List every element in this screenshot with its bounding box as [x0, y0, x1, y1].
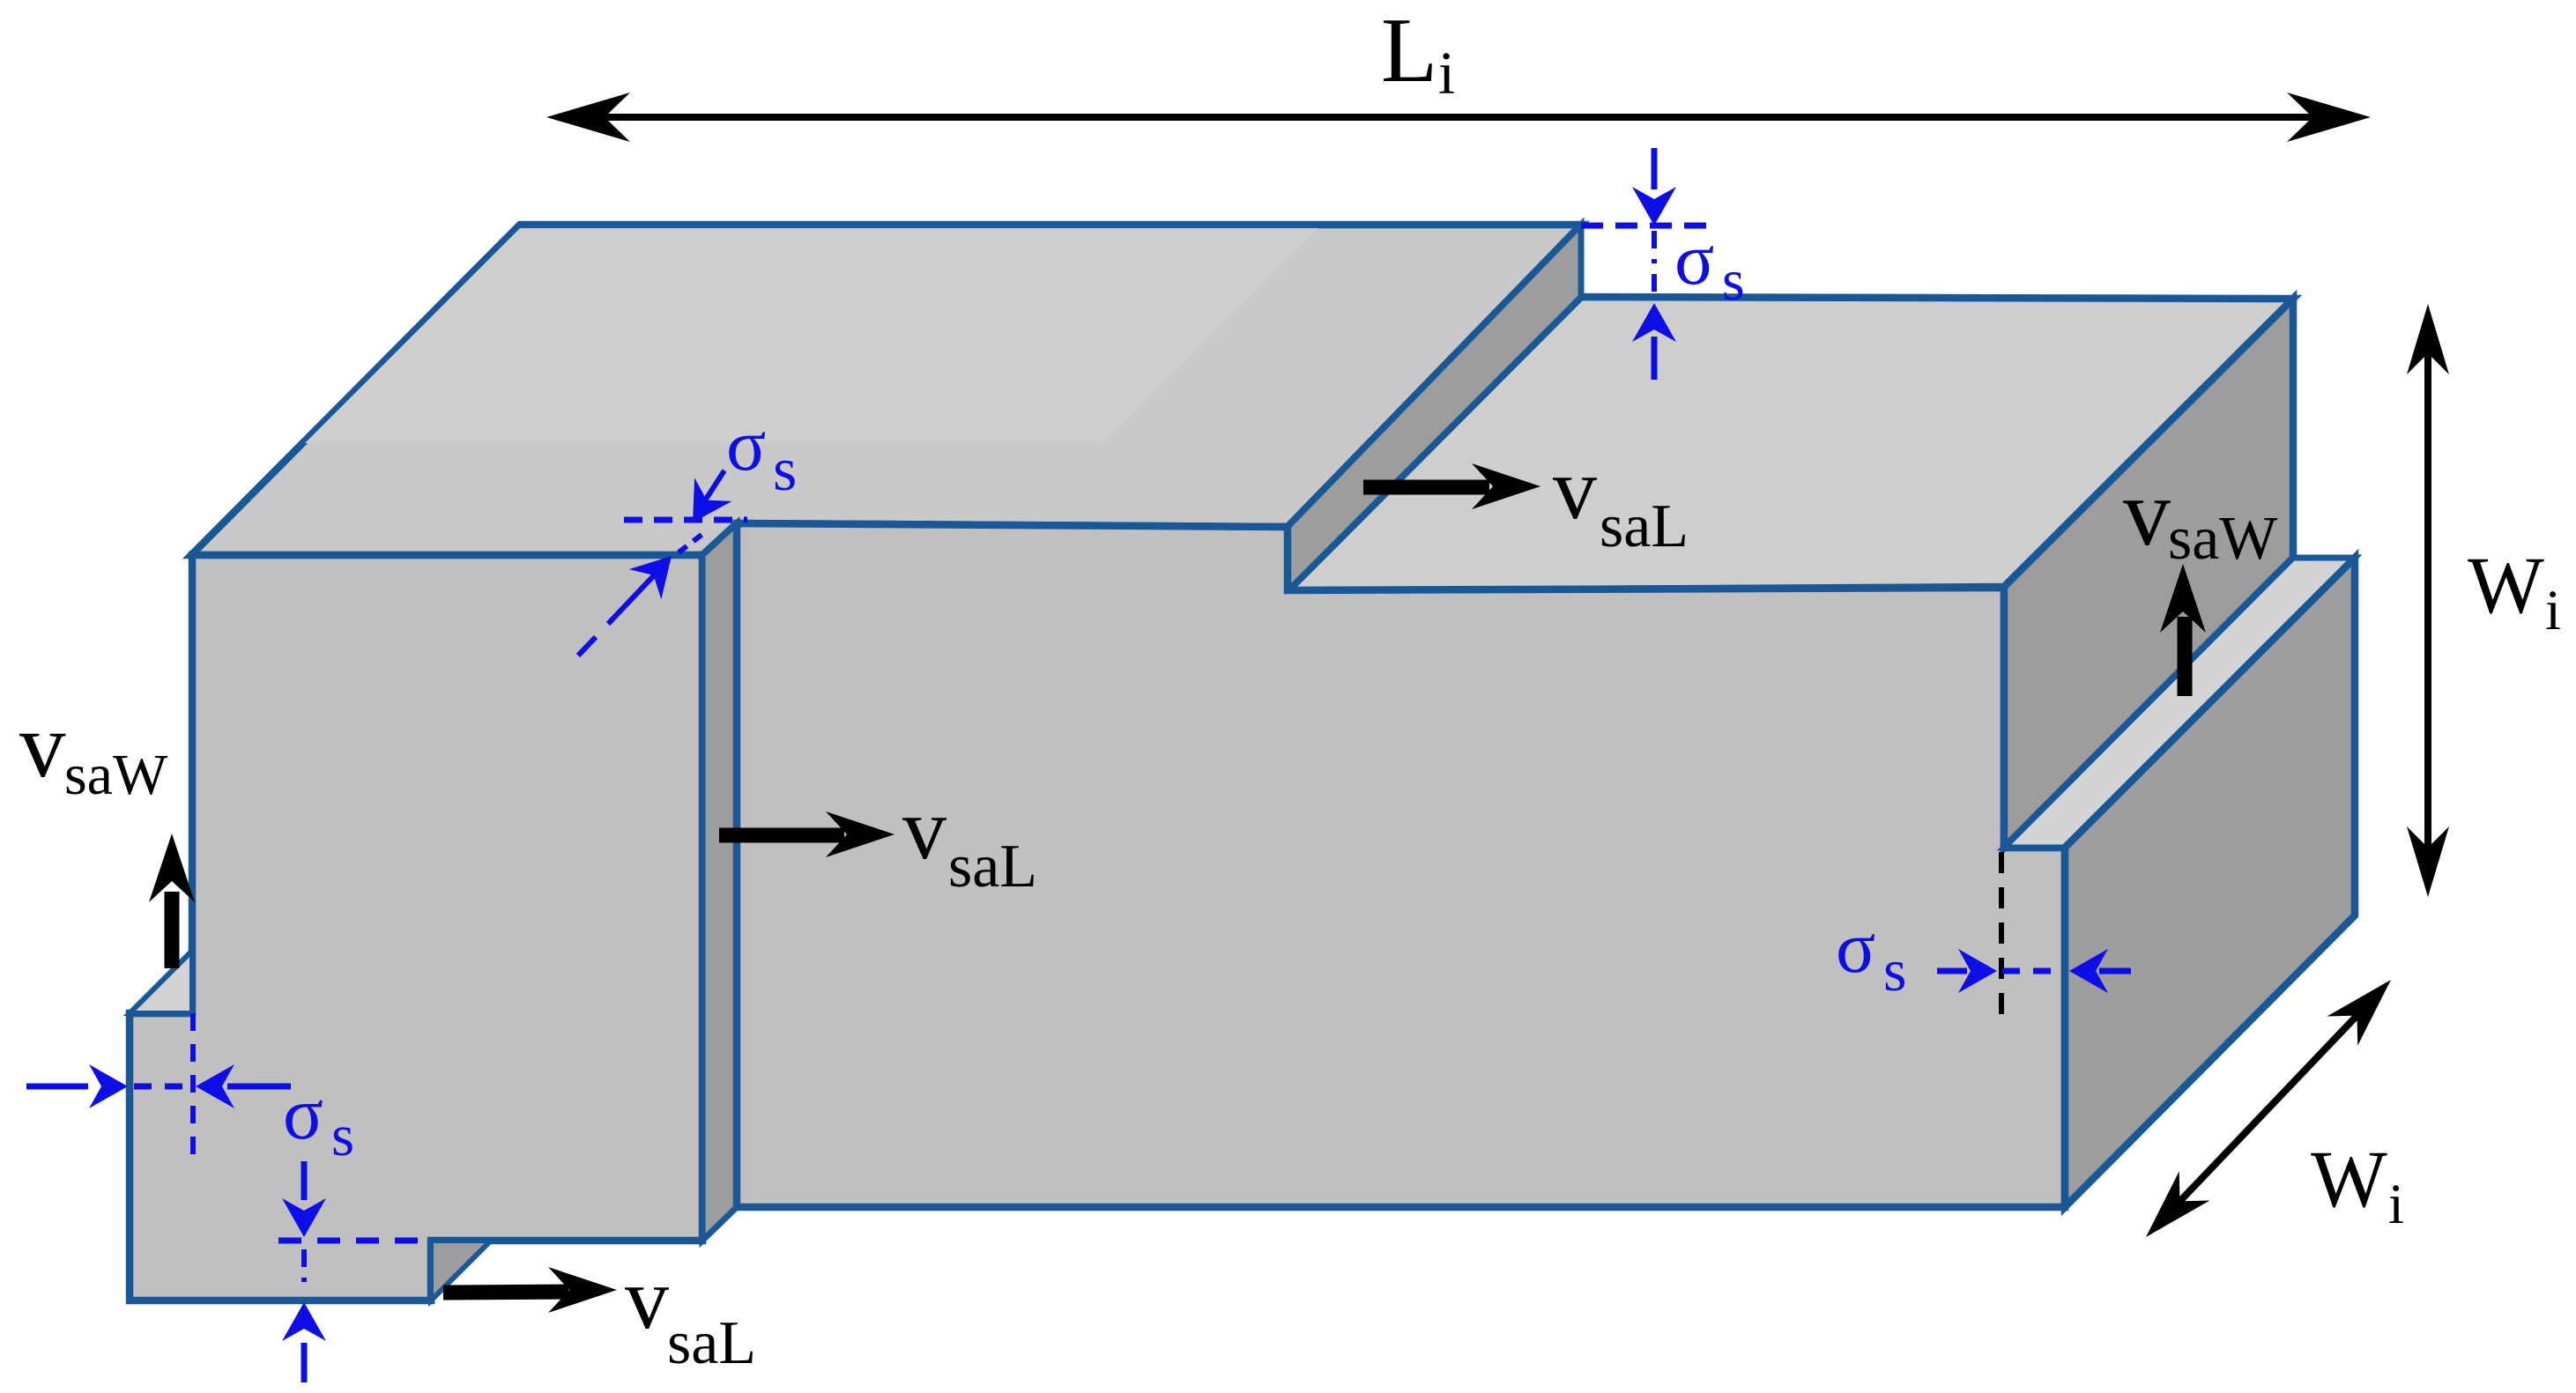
svg-text:saL: saL [667, 1309, 756, 1377]
v_saL arrow 1 (on lower terrace) [1363, 480, 1489, 495]
bottom-face layer right-end sliver (dark triangle) [431, 1241, 491, 1300]
svg-text:σ: σ [283, 1072, 323, 1155]
front face P1 (left section with bottom-left growth layers) [130, 555, 702, 1300]
sigma_s marker 2 (top-right step height) [1581, 223, 1714, 229]
svg-text:i: i [2388, 1173, 2404, 1236]
riser strip R2 (depth step between left and middle front faces) [702, 523, 737, 1241]
riser face R1 (step between terraces, sigma_s high) [1288, 225, 1581, 591]
svg-text:s: s [1883, 937, 1906, 1004]
svg-text:saL: saL [948, 833, 1037, 900]
svg-text:v: v [902, 780, 947, 878]
v_saL arrow 3 (bottom layer) [443, 1292, 568, 1293]
svg-text:W: W [2468, 540, 2544, 630]
v_saL arrow 2 (middle front face) [719, 828, 844, 843]
svg-text:σ: σ [1674, 219, 1714, 300]
svg-text:v: v [19, 693, 66, 797]
L_i dimension arrow (top) [582, 114, 2335, 121]
svg-text:saL: saL [1600, 493, 1689, 560]
hidden bottom edge (dashed) [278, 1238, 431, 1244]
top face T2 (lower-right terrace) [1288, 297, 2293, 591]
W_i dimension arrow (bottom-right, diagonal) [2160, 995, 2377, 1222]
svg-text:σ: σ [726, 404, 766, 486]
svg-text:i: i [1438, 40, 1455, 107]
svg-text:s: s [1722, 248, 1745, 313]
svg-text:s: s [773, 436, 797, 504]
right-end layer top strip (light) [2004, 558, 2355, 848]
svg-text:W: W [2311, 1134, 2387, 1224]
svg-text:i: i [2545, 579, 2561, 642]
svg-text:saW: saW [64, 743, 168, 807]
svg-text:L: L [1381, 0, 1437, 101]
svg-text:s: s [331, 1103, 354, 1168]
svg-text:v: v [1553, 440, 1597, 537]
svg-text:v: v [2123, 461, 2171, 566]
front face P2 (middle and right sections) [737, 523, 2065, 1207]
svg-text:saW: saW [2168, 505, 2277, 573]
v_saW arrow 2 (left, up) [165, 892, 180, 968]
right end face (upper, dark) [2004, 299, 2293, 848]
sigma_s marker 3 (right-end length step) [1999, 852, 2004, 1017]
left-face layer top sliver (light triangle) [130, 951, 192, 1013]
svg-text:v: v [625, 1249, 669, 1347]
top face T1 back-left lighter sheen [305, 228, 1318, 443]
right-end layer outer face (dark) [2065, 558, 2355, 1207]
svg-text:σ: σ [1836, 907, 1875, 989]
W_i dimension arrow (right, vertical) [2424, 322, 2431, 879]
top face T1 (upper-left terrace) [191, 225, 1581, 555]
sigma_s marker 1 (front-face depth step, diagonal) [624, 517, 747, 523]
v_saW arrow 1 (right end, up) [2178, 617, 2193, 696]
sigma_s marker 4 (bottom-left: length and width steps) [190, 1013, 196, 1154]
